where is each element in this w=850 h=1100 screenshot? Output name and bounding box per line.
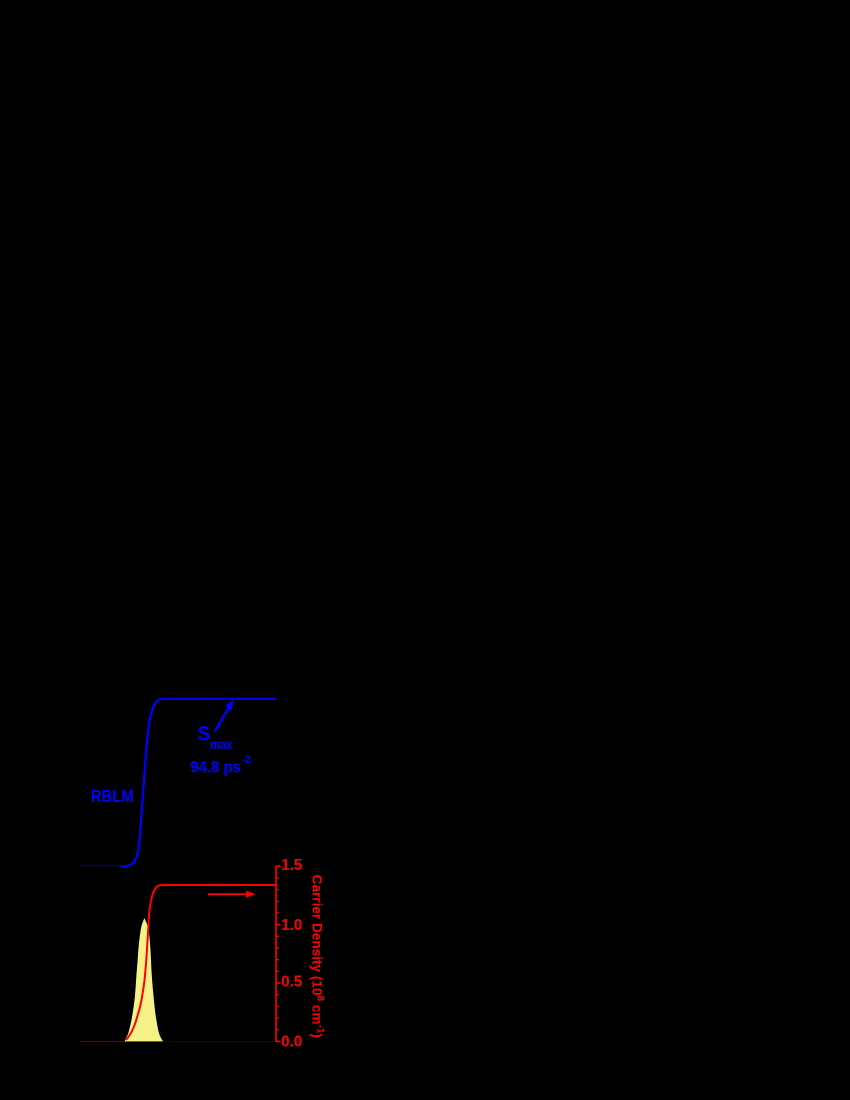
red right axis spine <box>275 866 277 1042</box>
svg-text:1.5: 1.5 <box>281 857 302 874</box>
blue annotation arrow to plateau <box>215 700 233 732</box>
red minor ticks <box>276 878 279 1030</box>
blue RBLM signal curve <box>121 699 276 867</box>
svg-text:S: S <box>198 723 211 746</box>
svg-text:Carrier Density (108 cm-1): Carrier Density (108 cm-1) <box>309 875 325 1038</box>
red carrier density curve <box>126 885 276 1040</box>
svg-text:1.0: 1.0 <box>281 917 302 934</box>
red zero baseline (very dim under black axis) <box>80 1041 276 1043</box>
svg-text:0.0: 0.0 <box>281 1034 302 1051</box>
svg-text:94.8 ps: 94.8 ps <box>190 757 241 776</box>
yellow pump pulse <box>125 918 164 1041</box>
red baseline left segment (slightly brighter) <box>80 1041 126 1043</box>
red rightward arrow <box>208 891 256 898</box>
red major ticks <box>276 866 281 1041</box>
svg-text:-2: -2 <box>243 754 251 766</box>
svg-text:max: max <box>210 737 233 752</box>
svg-text:RBLM: RBLM <box>91 786 134 806</box>
blue baseline (dimmed under black axis) <box>80 865 122 867</box>
svg-text:0.5: 0.5 <box>281 974 302 991</box>
